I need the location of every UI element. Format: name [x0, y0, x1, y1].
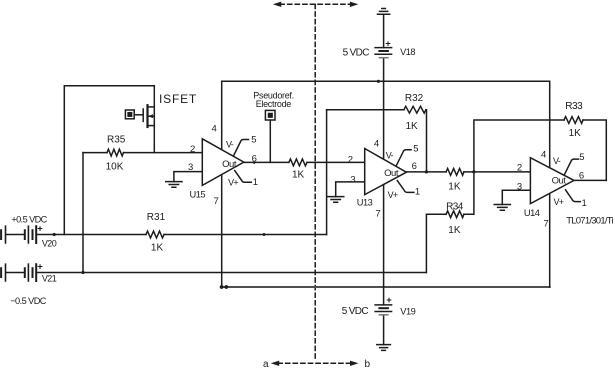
svg-text:4: 4: [374, 138, 379, 149]
op-amp U14 body: [530, 158, 574, 204]
svg-text:1K: 1K: [448, 225, 461, 236]
svg-text:V+: V+: [228, 177, 238, 187]
wire: V20 row with R31: [6, 234, 326, 236]
svg-text:+: +: [37, 224, 43, 235]
resistor R33: [564, 117, 583, 124]
junction dot V21/R35: [81, 271, 84, 274]
svg-text:4: 4: [541, 149, 546, 160]
ISFET body arrowhead: [148, 114, 153, 118]
svg-text:2: 2: [190, 144, 195, 155]
wire: U14 supply line pins 4-7: [549, 81, 551, 287]
ISFET drain stub: [148, 106, 155, 108]
wire: U15 pin3 to ground: [174, 172, 202, 182]
wire: R35 to V21 vertical: [82, 153, 84, 273]
svg-text:V+: V+: [554, 197, 564, 207]
arrowheads of dashed bottom marker: [271, 361, 359, 366]
svg-text:V-: V-: [553, 156, 561, 166]
wire: R31/R32 node vertical: [326, 110, 328, 235]
ISFET gate electrode square: [125, 110, 134, 119]
svg-text:TL071/301/Ti: TL071/301/Ti: [566, 216, 613, 227]
svg-text:−0.5 VDC: −0.5 VDC: [10, 296, 47, 306]
wire: U13 / V18 / V19 supply line: [383, 14, 385, 344]
svg-text:5 VDC: 5 VDC: [342, 306, 369, 317]
svg-text:5: 5: [251, 135, 256, 146]
resistor R35: [107, 149, 124, 156]
svg-text:1: 1: [253, 177, 258, 188]
junction dot V18 at top rail: [377, 80, 380, 83]
ground at U15 pin 3: [166, 182, 182, 188]
op-amp U15 pin1 lead: [235, 171, 252, 183]
wire: U13 output row to U14 pin 2: [406, 171, 530, 173]
wire: U14 pin3 to ground: [502, 190, 530, 204]
op-amp U13 pin1 lead: [397, 181, 414, 193]
junction dot R31 row: [263, 233, 266, 236]
svg-text:7: 7: [544, 219, 549, 230]
ISFET source stub: [148, 125, 155, 127]
svg-text:7: 7: [214, 196, 219, 207]
svg-text:3: 3: [188, 162, 193, 173]
svg-text:Out: Out: [222, 159, 237, 170]
pseudoreference electrode square: [265, 110, 275, 120]
vertical dashed section line: [314, 4, 316, 359]
ISFET gate lead: [134, 114, 143, 116]
svg-text:V+: V+: [388, 190, 398, 200]
wire: U13 pin3 to ground: [336, 182, 365, 197]
svg-text:R35: R35: [107, 135, 126, 146]
op-amp U13 body: [365, 149, 407, 195]
op-amp U15 body: [202, 139, 244, 186]
svg-text:b: b: [365, 359, 371, 369]
svg-text:6: 6: [579, 171, 584, 182]
svg-text:1K: 1K: [569, 128, 582, 139]
wire: U14 output to R33: [574, 179, 606, 181]
svg-text:1K: 1K: [292, 170, 305, 181]
wire: R32 feedback row: [327, 110, 427, 172]
bottom dashed marker line a-b: [278, 362, 351, 364]
wire: R34 loop to V21: [426, 172, 474, 273]
op-amp U15 pin5 lead: [234, 140, 249, 156]
svg-text:1K: 1K: [151, 243, 164, 254]
svg-text:V20: V20: [42, 238, 57, 248]
svg-text:5 VDC: 5 VDC: [343, 47, 370, 58]
pin 6 dot U15: [253, 162, 255, 164]
svg-text:V21: V21: [42, 273, 57, 283]
wire: electrode to U15 output: [269, 120, 271, 162]
battery V18 plates: [375, 48, 392, 55]
junction dot V20 terminal: [53, 233, 56, 236]
arrowheads of dashed top marker: [273, 2, 359, 7]
wire: V- rail bottom (pin 7 rail): [222, 286, 550, 288]
svg-text:Out: Out: [552, 176, 567, 187]
op-amp U14 pin5 lead: [564, 159, 578, 175]
wire: ISFET drain bias from V20: [64, 86, 154, 235]
junction dot R32 at U13 output: [425, 170, 428, 173]
svg-text:+: +: [37, 261, 43, 272]
ISFET gate bar: [142, 109, 144, 121]
resistor R32: [404, 106, 426, 113]
ISFET channel bar: [146, 105, 148, 127]
svg-text:V18: V18: [400, 47, 415, 57]
resistor R31: [146, 231, 164, 238]
svg-text:5: 5: [413, 143, 418, 154]
battery V19 plates: [375, 305, 392, 312]
wire: R33 feedback loop: [474, 120, 606, 180]
svg-text:1: 1: [415, 187, 420, 198]
svg-text:1: 1: [582, 198, 587, 209]
svg-text:V-: V-: [386, 150, 394, 160]
svg-text:a: a: [263, 359, 269, 369]
op-amp U14 pin1 lead: [566, 190, 581, 202]
op-amp U13 pin5 lead: [396, 150, 411, 166]
svg-text:R33: R33: [565, 101, 583, 112]
svg-text:+: +: [386, 295, 392, 306]
svg-text:1K: 1K: [448, 181, 461, 192]
junction dot R34/R33 at U14 input: [472, 170, 475, 173]
junction dots bottom rail left: [220, 285, 224, 289]
ISFET body arrow lead: [149, 115, 155, 117]
svg-text:U14: U14: [524, 208, 540, 218]
ground below V19: [377, 345, 391, 351]
battery V20 plates: [1, 226, 36, 243]
resistor 1K between U15 and U13: [289, 159, 307, 166]
svg-text:3: 3: [350, 175, 355, 186]
svg-text:5: 5: [579, 152, 584, 163]
svg-text:V19: V19: [400, 306, 415, 316]
svg-text:3: 3: [517, 181, 522, 192]
svg-text:2: 2: [517, 162, 522, 173]
ground at U13 pin 3: [328, 197, 344, 203]
svg-text:U15: U15: [190, 189, 206, 199]
svg-text:+: +: [385, 39, 391, 50]
wire: U15 supply line pins 4-7: [221, 81, 223, 287]
resistor R34: [446, 211, 464, 218]
wire: V21 row: [6, 272, 426, 274]
wire: top dashed marker line: [280, 3, 351, 5]
svg-text:1K: 1K: [406, 121, 419, 132]
ground at U14 pin 3: [494, 205, 510, 211]
svg-text:R34: R34: [446, 202, 464, 213]
svg-text:Electrode: Electrode: [256, 99, 292, 109]
svg-text:6: 6: [412, 161, 417, 172]
battery V21 plates: [1, 264, 36, 281]
svg-text:6: 6: [252, 154, 257, 165]
svg-text:2: 2: [348, 154, 353, 165]
svg-text:10K: 10K: [106, 162, 124, 173]
svg-text:4: 4: [212, 124, 217, 135]
resistor 1K between U13 and U14: [446, 169, 464, 176]
svg-text:Out: Out: [384, 168, 399, 179]
svg-text:U13: U13: [357, 198, 373, 208]
ISFET source lead down to input row: [153, 86, 155, 153]
svg-text:V-: V-: [226, 140, 234, 150]
svg-text:R31: R31: [147, 212, 166, 223]
wire: U15 output row to U13 pin 2: [244, 161, 365, 163]
wire: inverting input row of U15: [83, 152, 202, 154]
svg-text:ISFET: ISFET: [159, 92, 197, 106]
ground above V18 (inverted): [378, 9, 390, 15]
wire: V+ rail top (pin 4 rail): [222, 80, 550, 82]
svg-text:7: 7: [375, 209, 380, 220]
svg-text:R32: R32: [405, 93, 424, 104]
